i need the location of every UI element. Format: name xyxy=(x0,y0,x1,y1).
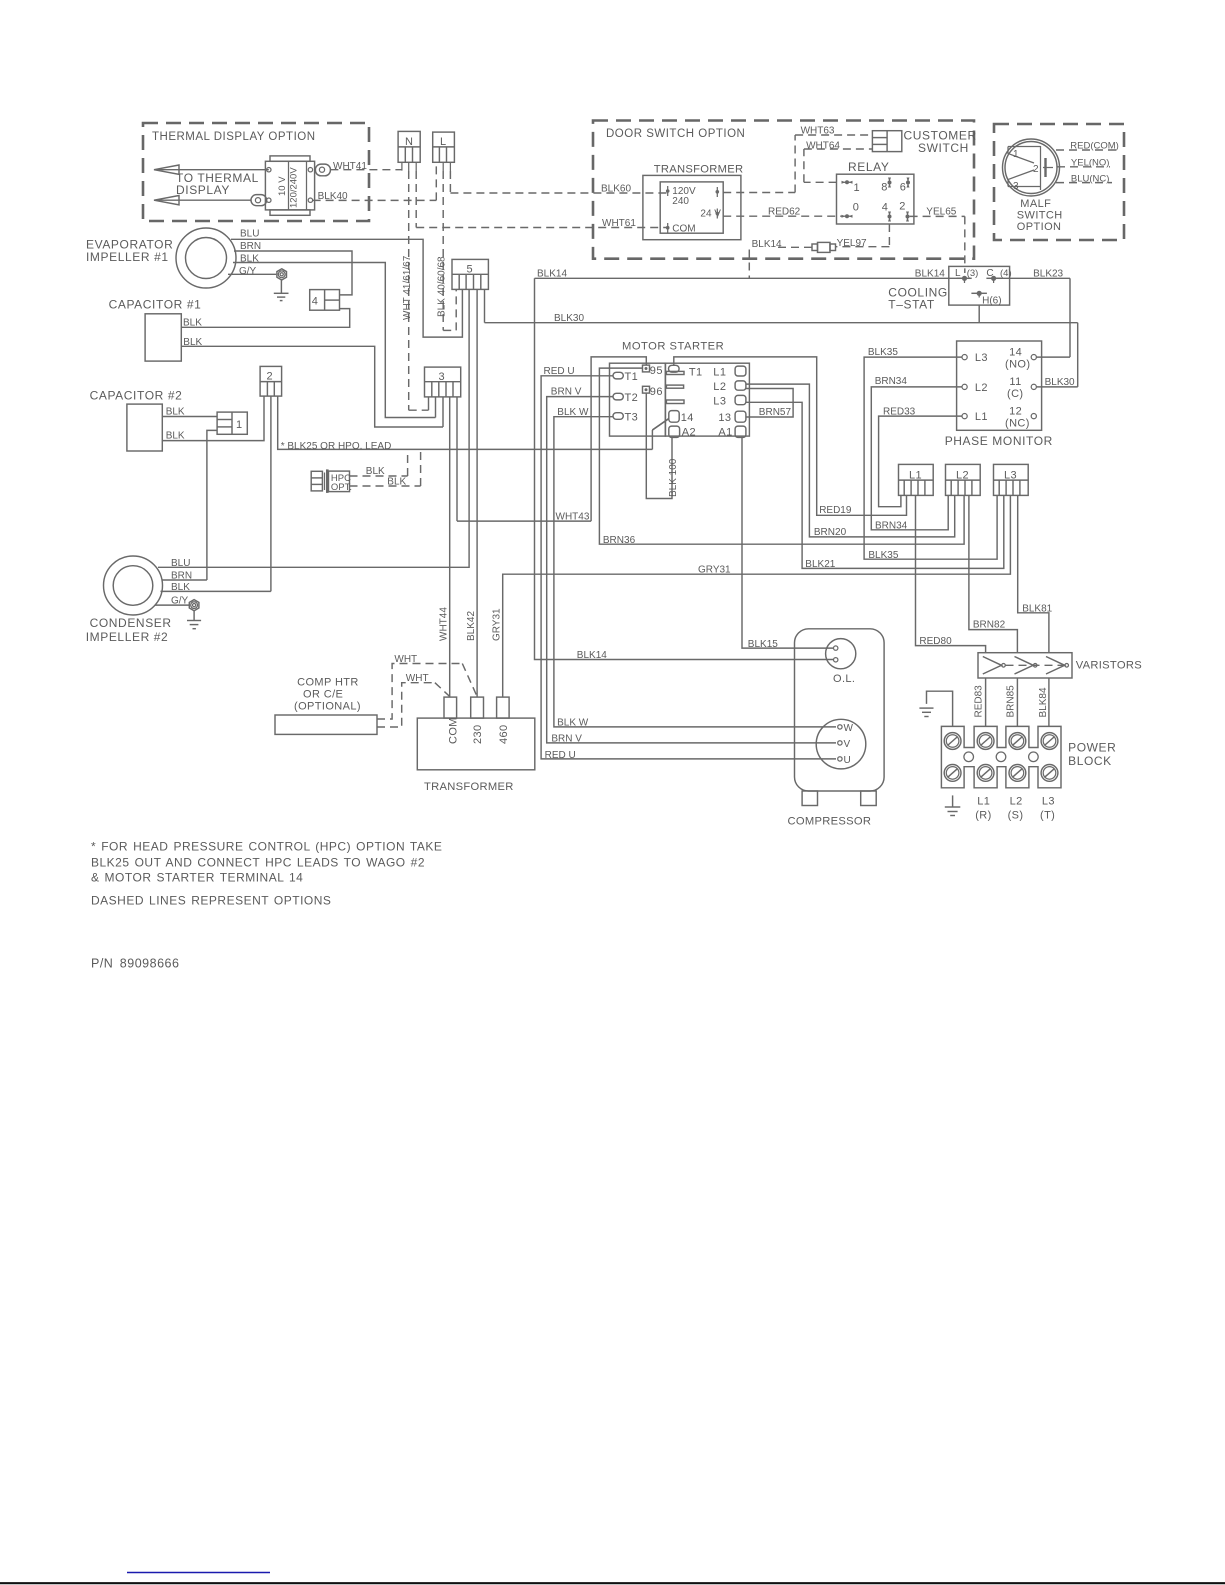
svg-text:BRN20: BRN20 xyxy=(814,527,847,538)
svg-text:A2: A2 xyxy=(682,426,696,438)
svg-text:GRY31: GRY31 xyxy=(698,564,731,575)
wire BLK23 (t-stat C to phase monitor NO) xyxy=(996,269,1070,358)
power block screws top row xyxy=(944,733,1058,750)
note text dashed lines xyxy=(91,894,331,908)
svg-text:(3): (3) xyxy=(967,268,979,279)
svg-text:IMPELLER #2: IMPELLER #2 xyxy=(86,630,169,644)
capacitor #2 xyxy=(90,389,183,452)
svg-text:WHT44: WHT44 xyxy=(439,607,450,641)
contactor text T1 xyxy=(689,367,703,379)
svg-text:(4): (4) xyxy=(1000,268,1012,279)
svg-text:95: 95 xyxy=(650,365,663,377)
svg-text:0: 0 xyxy=(853,202,860,214)
contactor terminal 14 xyxy=(669,411,679,423)
svg-text:BLK84: BLK84 xyxy=(1038,687,1049,717)
cap2 wire BLK (to connector1 row1) xyxy=(162,407,217,418)
condenser ground hex screw xyxy=(189,600,199,611)
svg-text:BLU: BLU xyxy=(240,229,259,240)
svg-text:L: L xyxy=(440,136,447,148)
svg-text:1: 1 xyxy=(236,419,243,431)
svg-text:460: 460 xyxy=(498,724,510,744)
connector 3 xyxy=(425,367,461,397)
wire BLK 100 (starter 96 to A2) xyxy=(646,393,679,498)
GRY31 rotated label xyxy=(492,608,503,641)
condenser wire BLU (to connector5 pin3) xyxy=(158,289,469,569)
svg-text:2: 2 xyxy=(899,201,906,213)
svg-text:BLK35: BLK35 xyxy=(868,347,898,358)
wire WHT63 (door transformer to customer switch) xyxy=(723,126,872,193)
svg-text:BLK: BLK xyxy=(166,431,185,442)
wire WHT 41/61/67 trunk (N pin2 to connector3 pin1) xyxy=(402,162,429,410)
svg-text:CAPACITOR #2: CAPACITOR #2 xyxy=(90,389,183,403)
varistor 2 symbol xyxy=(1015,657,1037,675)
condenser impeller #2 xyxy=(86,556,172,644)
transformer (power) box xyxy=(417,697,535,793)
note text head pressure control xyxy=(91,840,442,885)
svg-text:WHT: WHT xyxy=(406,673,429,684)
cap1 wire BLK (to connector4 lower) xyxy=(181,309,349,329)
svg-text:YEL(NO): YEL(NO) xyxy=(1071,158,1110,169)
svg-text:T1: T1 xyxy=(689,367,703,379)
varistor internal dashed link xyxy=(1006,664,1065,666)
thermal transformer 10V 120/240V xyxy=(265,156,314,215)
svg-text:GRY31: GRY31 xyxy=(492,608,503,641)
wago connector L3 xyxy=(994,464,1029,495)
lug terminal right of transformer xyxy=(315,164,330,176)
svg-text:T–STAT: T–STAT xyxy=(888,298,935,312)
wire BRN85 (varistor2 to power block) xyxy=(1006,678,1018,726)
svg-text:OPTION: OPTION xyxy=(1017,221,1062,233)
contactor terminal L2 xyxy=(735,381,746,390)
phase monitor box xyxy=(945,341,1053,448)
capacitor #1 xyxy=(109,298,202,362)
svg-text:L2: L2 xyxy=(956,470,969,482)
svg-text:10 V: 10 V xyxy=(277,176,288,196)
svg-text:YEL65: YEL65 xyxy=(926,207,956,218)
svg-text:WHT61: WHT61 xyxy=(602,218,636,229)
svg-text:T1: T1 xyxy=(625,371,639,383)
wire BLK30 bus xyxy=(485,305,1078,388)
wire BLK60 (L pin3 down then right to door transformer) xyxy=(450,162,667,194)
wire BLK15 (starter A1 to compressor OL) xyxy=(742,437,833,650)
svg-text:14: 14 xyxy=(1009,346,1022,358)
varistors box xyxy=(978,653,1142,678)
svg-text:COM: COM xyxy=(672,224,695,235)
svg-text:5: 5 xyxy=(467,264,474,276)
wire BLK14 bus (trunk to t-stat) xyxy=(535,269,963,280)
t-stat screw C(4) xyxy=(986,276,1001,283)
power block screws bottom row xyxy=(944,765,1058,782)
svg-text:L1: L1 xyxy=(977,796,990,808)
svg-text:N: N xyxy=(405,136,413,148)
comp htr dashed lead WHT upper xyxy=(377,654,477,719)
motor starter title xyxy=(622,341,724,353)
motor starter contactor box xyxy=(665,363,749,436)
svg-text:6: 6 xyxy=(900,182,907,194)
svg-text:BRN34: BRN34 xyxy=(875,521,908,532)
svg-text:T3: T3 xyxy=(625,412,639,424)
relay pin 6 symbol xyxy=(906,178,910,188)
svg-text:WHT63: WHT63 xyxy=(801,126,835,137)
compressor OL circle xyxy=(826,639,856,685)
wire BLK42 (connector5 pin4 to transformer 230) xyxy=(466,289,477,697)
svg-text:BLK W: BLK W xyxy=(557,718,589,729)
wire BRN V (starter T2 to compressor V) xyxy=(547,386,836,744)
svg-text:L: L xyxy=(955,268,961,279)
svg-text:A1: A1 xyxy=(718,426,732,438)
svg-text:RELAY: RELAY xyxy=(848,160,889,174)
svg-text:BRN V: BRN V xyxy=(551,386,582,397)
connector 5 xyxy=(452,259,488,289)
wire BLK14 trunk (bus to compressor OL) xyxy=(535,278,834,661)
svg-text:1: 1 xyxy=(1013,149,1019,160)
svg-text:120/240V: 120/240V xyxy=(289,167,300,208)
svg-text:BLK81: BLK81 xyxy=(1022,604,1052,615)
svg-text:BLK60: BLK60 xyxy=(601,184,631,195)
wire WHT41 (transformer to N pin1) xyxy=(330,161,402,172)
relay box xyxy=(837,160,914,224)
thermal display option dashed box xyxy=(143,123,369,221)
HPC OPT component xyxy=(311,469,352,493)
svg-text:BRN36: BRN36 xyxy=(603,535,636,546)
wire BLK81 (wago L3 to varistor 3) xyxy=(1018,495,1053,652)
motor starter overload box xyxy=(610,363,666,436)
power block labels L1 (R) L2 (S) L3 (T) xyxy=(975,796,1055,822)
malf switch circle xyxy=(1003,139,1060,196)
svg-text:BRN V: BRN V xyxy=(551,734,582,745)
condenser wire BLK xyxy=(161,582,271,593)
t-stat screw L(3) xyxy=(957,276,972,283)
svg-text:BLK: BLK xyxy=(366,466,385,477)
starter aux diagonal lever xyxy=(652,419,668,431)
wire BLK W (starter T3 to compressor W) xyxy=(554,407,836,729)
to thermal display text xyxy=(176,171,259,197)
svg-text:BRN34: BRN34 xyxy=(875,376,908,387)
svg-text:L1: L1 xyxy=(713,367,726,379)
evap wire BRN (to connector4 upper) xyxy=(234,241,352,295)
evap ground symbol xyxy=(274,280,289,301)
svg-text:230: 230 xyxy=(472,724,484,744)
wire WHT44 (connector3 pin4 to transformer COM) xyxy=(439,397,450,697)
svg-text:SWITCH: SWITCH xyxy=(1017,210,1063,222)
svg-text:RED(COM): RED(COM) xyxy=(1070,141,1119,152)
svg-text:& MOTOR STARTER TERMINAL 1: & MOTOR STARTER TERMINAL 14 xyxy=(91,871,303,885)
svg-text:POWER: POWER xyxy=(1068,741,1116,755)
svg-text:CONDENSER: CONDENSER xyxy=(90,616,172,630)
wire BLK84 (varistor3 to power block) xyxy=(1038,678,1049,726)
wire BLK30 from connector5 pin5 xyxy=(484,289,486,322)
svg-text:(OPTIONAL): (OPTIONAL) xyxy=(294,701,361,713)
svg-text:H(6): H(6) xyxy=(982,296,1001,307)
wire YEL65 (relay 2 to cooling t-stat L) xyxy=(910,207,965,274)
lug terminal left of transformer xyxy=(251,195,267,206)
evap wire BLK (to connector3 pin2) xyxy=(233,254,436,418)
svg-text:BRN57: BRN57 xyxy=(759,407,792,418)
svg-text:BLK21: BLK21 xyxy=(805,559,835,570)
svg-text:L3: L3 xyxy=(1042,796,1055,808)
svg-text:THERMAL DISPLAY OPTION: THERMAL DISPLAY OPTION xyxy=(152,131,316,143)
svg-text:BLK14: BLK14 xyxy=(577,650,607,661)
wire BLK35 (phase L3 to wago L3 pin1) xyxy=(864,347,997,561)
svg-text:WHT 41/61/67: WHT 41/61/67 xyxy=(402,255,413,320)
starter terminal 96 square xyxy=(643,386,663,398)
wire BRN36 (starter 95 to wago L2) xyxy=(599,368,964,546)
svg-text:4: 4 xyxy=(882,202,889,214)
wire RED62 (door transformer to relay 0) xyxy=(723,207,842,218)
varistor 3 symbol xyxy=(1046,657,1068,675)
svg-text:(R): (R) xyxy=(975,810,991,822)
svg-text:L2: L2 xyxy=(1010,796,1023,808)
wire BRN20 (starter L2 out to wago L2 pin2) xyxy=(746,384,955,538)
wago connector L1 xyxy=(899,464,934,495)
black bottom border xyxy=(0,1582,1225,1584)
svg-text:G/Y: G/Y xyxy=(239,266,257,277)
wire connector2 pin2 to condenser BLK xyxy=(270,396,272,591)
svg-text:(S): (S) xyxy=(1008,810,1024,822)
svg-text:8: 8 xyxy=(881,182,888,194)
comp htr dashed lead WHT lower xyxy=(377,673,450,727)
svg-text:11: 11 xyxy=(1009,376,1021,388)
arrow to thermal display (bottom) xyxy=(154,196,251,205)
svg-text:(NC): (NC) xyxy=(1005,417,1030,429)
starter terminal T1 oval xyxy=(613,371,638,383)
svg-text:PHASE MONITOR: PHASE MONITOR xyxy=(945,434,1053,448)
part number xyxy=(91,957,179,971)
svg-text:3: 3 xyxy=(439,371,446,383)
power block outline xyxy=(941,726,1116,787)
evap ground hex screw xyxy=(277,269,287,280)
wire BLK 40/60/68 trunk (L pin2 to connector5 pin1) xyxy=(437,162,457,330)
contactor terminal 13 xyxy=(735,411,746,422)
connector 2 xyxy=(260,366,282,396)
customer switch xyxy=(872,129,976,156)
svg-text:12: 12 xyxy=(1009,405,1022,417)
svg-text:COMPRESSOR: COMPRESSOR xyxy=(788,816,872,828)
evap wire BLU (to connector5 pin2) xyxy=(231,229,462,338)
svg-text:DASHED LINES REPRESENT OPTI: DASHED LINES REPRESENT OPTIONS xyxy=(91,894,331,908)
condenser wire G/Y xyxy=(155,595,189,606)
t-stat screw H(6) xyxy=(971,291,987,298)
wire connector1 to condenser BRN xyxy=(207,430,217,580)
relay pin 2 symbol xyxy=(906,212,910,222)
wire WHT43 (connector3 pin5 to starter 95) xyxy=(457,357,646,523)
connector 4 xyxy=(310,290,340,311)
svg-text:P/N 89098666: P/N 89098666 xyxy=(91,957,179,971)
wire RED U (starter T1 to compressor U) xyxy=(541,366,836,761)
svg-text:L3: L3 xyxy=(713,396,726,408)
svg-text:96: 96 xyxy=(650,386,663,398)
evap wire G/Y to ground xyxy=(228,266,276,277)
contactor pole1 top oval xyxy=(669,365,680,372)
svg-text:BLK35: BLK35 xyxy=(868,550,898,561)
svg-text:RED80: RED80 xyxy=(919,636,952,647)
malf switch option dashed box xyxy=(994,124,1124,240)
svg-text:L2: L2 xyxy=(975,382,988,394)
wire BLK21 (starter L3 out to wago L3 pin2) xyxy=(746,402,1004,570)
wire BRN82 (wago L2 to varistor 2) xyxy=(969,495,1018,652)
svg-text:W: W xyxy=(844,723,854,734)
wire GRY31 (transformer 460 to wago L3 pin3 with tap) xyxy=(503,495,1011,697)
svg-text:* FOR HEAD PRESSURE CONTROL: * FOR HEAD PRESSURE CONTROL (HPC) OPTION… xyxy=(91,840,442,854)
svg-text:RED19: RED19 xyxy=(819,505,852,516)
condenser ground symbol xyxy=(187,611,201,629)
wire RED80 (wago L1 to varistor 1) xyxy=(916,495,986,652)
cap1 wire BLK (to connector3 pin3) xyxy=(181,337,443,427)
wago connector L2 xyxy=(946,464,981,495)
connector L xyxy=(433,132,455,162)
svg-text:RED83: RED83 xyxy=(974,685,985,718)
starter terminal T3 oval xyxy=(613,412,638,424)
wire RED33 (phase L1 to wago L1 pin1) xyxy=(879,406,962,506)
svg-text:V: V xyxy=(844,739,851,750)
relay pin 1 symbol xyxy=(842,180,853,184)
relay pin 8 symbol xyxy=(888,178,892,188)
svg-text:BLK42: BLK42 xyxy=(466,611,477,641)
contactor terminal L3 xyxy=(735,395,746,404)
svg-text:BLK 40/60/68: BLK 40/60/68 xyxy=(437,256,448,317)
svg-text:VARISTORS: VARISTORS xyxy=(1076,660,1142,672)
svg-text:DISPLAY: DISPLAY xyxy=(176,183,230,197)
wire WHT61 (N pin3 down then right to door transformer COM) xyxy=(416,162,668,229)
svg-text:* BLK25 OR HPO. LEAD: * BLK25 OR HPO. LEAD xyxy=(281,441,392,452)
svg-text:BLK15: BLK15 xyxy=(748,639,778,650)
svg-text:TRANSFORMER: TRANSFORMER xyxy=(654,164,744,176)
condenser wire BRN xyxy=(162,570,207,581)
svg-text:OPT.: OPT. xyxy=(331,482,352,493)
wire WHT64 (relay pin1 to customer switch) xyxy=(804,141,873,183)
compressor motor circle xyxy=(816,719,866,769)
wire contactor input to RED19 (wago L1) xyxy=(674,357,907,516)
comp htr optional xyxy=(275,677,377,735)
svg-text:240: 240 xyxy=(672,196,689,207)
svg-text:COMP HTR: COMP HTR xyxy=(297,677,359,689)
door transformer box xyxy=(643,164,744,240)
wire YEL97 with inline fuse (relay 4 to BLK14) xyxy=(749,224,889,278)
svg-text:BLU(NC): BLU(NC) xyxy=(1071,173,1110,184)
svg-text:OR C/E: OR C/E xyxy=(303,689,343,701)
arrow to thermal display (top) xyxy=(154,165,269,174)
cap2 wire BLK (to connector2 pin1) xyxy=(162,396,264,441)
malf switch leads RED(COM) YEL(NO) BLU(NC) xyxy=(1056,141,1119,185)
svg-text:RED U: RED U xyxy=(545,750,576,761)
connector 1 xyxy=(217,412,247,434)
svg-text:(T): (T) xyxy=(1040,810,1055,822)
svg-text:BRN82: BRN82 xyxy=(973,620,1006,631)
svg-text:MALF: MALF xyxy=(1020,198,1051,210)
svg-text:DOOR SWITCH OPTION: DOOR SWITCH OPTION xyxy=(606,128,745,140)
contactor texts L1 L2 L3 xyxy=(713,367,726,408)
contactor terminal L1 xyxy=(735,366,746,376)
cooling t-stat box xyxy=(888,266,1011,311)
wire BRN34 (phase L2 to wago L2 pin1) xyxy=(871,376,962,532)
svg-text:13: 13 xyxy=(718,412,731,424)
svg-text:3: 3 xyxy=(1013,181,1019,192)
svg-text:MOTOR STARTER: MOTOR STARTER xyxy=(622,341,724,353)
wire BRN57 jumper (L2 to 13) xyxy=(746,389,793,419)
svg-text:BLK14: BLK14 xyxy=(752,239,782,250)
svg-text:L1: L1 xyxy=(975,411,988,423)
svg-text:O.L.: O.L. xyxy=(833,673,855,685)
svg-text:4: 4 xyxy=(312,296,319,308)
wire BLK25 (connector2 pin3 to motor starter 14) xyxy=(278,396,669,452)
contactor terminal A1 xyxy=(735,426,746,437)
svg-text:BLK25 OUT AND CONNECT HPC: BLK25 OUT AND CONNECT HPC LEADS TO WAGO … xyxy=(91,856,425,870)
svg-text:BLK 100: BLK 100 xyxy=(668,458,679,497)
svg-text:(C): (C) xyxy=(1007,388,1023,400)
ground symbol left of power block xyxy=(919,708,933,716)
svg-text:TRANSFORMER: TRANSFORMER xyxy=(424,781,514,793)
svg-text:WHT: WHT xyxy=(394,654,417,665)
HPC dashed lead BLK lower xyxy=(350,449,421,487)
starter terminal 95 square xyxy=(643,365,663,377)
svg-text:BLOCK: BLOCK xyxy=(1068,754,1112,768)
relay pin 4 symbol xyxy=(888,212,892,222)
svg-text:WHT64: WHT64 xyxy=(806,141,840,152)
svg-text:RED62: RED62 xyxy=(768,207,801,218)
svg-text:IMPELLER #1: IMPELLER #1 xyxy=(86,250,169,264)
wire BLK40 (transformer to L pin1) xyxy=(313,162,437,202)
svg-text:(NO): (NO) xyxy=(1005,358,1030,370)
svg-text:14: 14 xyxy=(681,412,694,424)
svg-text:2: 2 xyxy=(267,371,274,383)
starter terminal T2 oval xyxy=(613,392,638,404)
evaporator impeller #1 xyxy=(86,228,236,288)
varistor 1 symbol xyxy=(983,657,1006,675)
svg-text:BLK30: BLK30 xyxy=(1045,377,1075,388)
svg-text:2: 2 xyxy=(1033,164,1039,175)
power block bottom ground symbol xyxy=(945,795,961,815)
svg-text:BLK: BLK xyxy=(387,477,406,488)
HPC dashed lead BLK upper xyxy=(350,449,408,477)
wire RED83 (varistor1 to power block) xyxy=(974,678,986,726)
svg-text:T2: T2 xyxy=(625,392,639,404)
svg-text:YEL97: YEL97 xyxy=(837,238,867,249)
blue underline bottom xyxy=(127,1572,270,1574)
svg-text:1: 1 xyxy=(854,182,861,194)
svg-text:L2: L2 xyxy=(713,381,726,393)
svg-text:COM: COM xyxy=(448,717,460,744)
svg-text:WHT43: WHT43 xyxy=(556,512,590,523)
svg-text:U: U xyxy=(844,755,851,766)
svg-text:L3: L3 xyxy=(975,352,988,364)
power block ground wire xyxy=(927,691,953,726)
svg-text:SWITCH: SWITCH xyxy=(918,141,969,155)
door switch option dashed box xyxy=(593,121,974,259)
svg-text:BRN85: BRN85 xyxy=(1006,685,1017,718)
relay pin 0 symbol xyxy=(842,214,853,218)
contactor texts 14 13 A2 A1 xyxy=(681,412,733,439)
contactor terminal A2 xyxy=(669,426,680,437)
svg-text:L3: L3 xyxy=(1004,470,1017,482)
svg-text:L1: L1 xyxy=(909,470,922,482)
svg-text:CAPACITOR #1: CAPACITOR #1 xyxy=(109,298,202,312)
compressor body xyxy=(788,629,885,828)
contactor pole contact bars xyxy=(666,371,684,403)
connector N xyxy=(398,131,420,162)
